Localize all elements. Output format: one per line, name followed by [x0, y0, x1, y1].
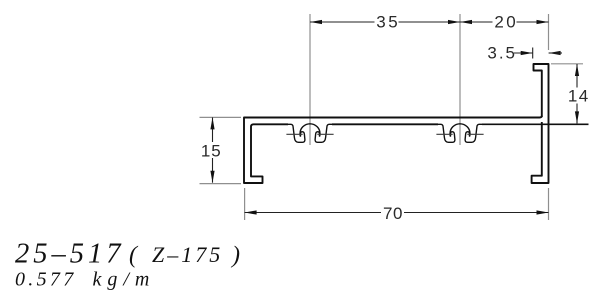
boss A left prong [288, 124, 305, 142]
arrow 15 bottom [210, 171, 214, 183]
boss A cross tick right [317, 133, 333, 135]
svg-text:35: 35 [376, 12, 400, 31]
inner line segment right of boss B to extension [482, 123, 589, 125]
svg-text:(: ( [129, 243, 139, 269]
screw boss A [286, 124, 333, 143]
arrow 3.5 left [521, 51, 533, 55]
svg-text:3.5: 3.5 [487, 43, 517, 62]
svg-text:): ) [230, 243, 240, 269]
dimension 3.5 leader left [514, 52, 533, 54]
boss B cross tick right [467, 133, 483, 135]
arrow 15 top [210, 117, 214, 129]
boss B left prong [438, 124, 455, 142]
svg-text:Z–175: Z–175 [152, 242, 223, 267]
screw boss B [436, 124, 483, 143]
extension line dim70 left [244, 188, 246, 220]
dimension line 14 [576, 64, 578, 123]
inner line segment between bosses [332, 123, 438, 125]
extension centerline boss A [309, 14, 311, 145]
top wall top line + left wall + left foot + inner line start [244, 116, 542, 183]
dimension line 35 [310, 21, 460, 23]
boss B dome [450, 124, 470, 137]
arrow 14 bottom [575, 111, 579, 123]
arrow 20 left [460, 20, 472, 24]
dimension line 70 [245, 212, 549, 214]
right wall outer with hook and foot [532, 64, 549, 183]
boss A right prong [315, 124, 332, 142]
arrow 14 top [575, 64, 579, 76]
extension tick 3.5 [532, 48, 534, 59]
svg-text:70: 70 [383, 204, 403, 223]
svg-text:0.577: 0.577 [15, 269, 77, 291]
extension line dim15 top [200, 116, 242, 118]
svg-text:14: 14 [568, 87, 590, 106]
dimension 3.5 tail right [549, 52, 562, 54]
profile outline main [244, 64, 589, 183]
dimension line 15 [212, 117, 214, 182]
svg-text:20: 20 [494, 12, 518, 31]
svg-text:15: 15 [201, 142, 222, 161]
boss B right prong [465, 124, 482, 142]
boss B cross tick left [436, 133, 452, 135]
arrow 70 right [537, 210, 549, 214]
extension line dim70 right [548, 188, 550, 220]
arrow 35 right [448, 20, 460, 24]
boss A dome [300, 124, 320, 137]
boss A cross tick left [286, 133, 302, 135]
arrow 3.5 right [549, 51, 561, 55]
svg-text:25–517: 25–517 [15, 239, 125, 270]
arrow 35 left [310, 20, 322, 24]
extension line right wall top [548, 14, 550, 50]
dimension line 20 [460, 21, 549, 23]
extension line dim14 top [551, 63, 583, 65]
arrow 70 left [245, 210, 257, 214]
svg-text:kg/m: kg/m [93, 269, 156, 291]
extension line dim15 bottom [200, 183, 242, 185]
arrow 20 right [537, 20, 549, 24]
extension centerline boss B [459, 14, 461, 145]
